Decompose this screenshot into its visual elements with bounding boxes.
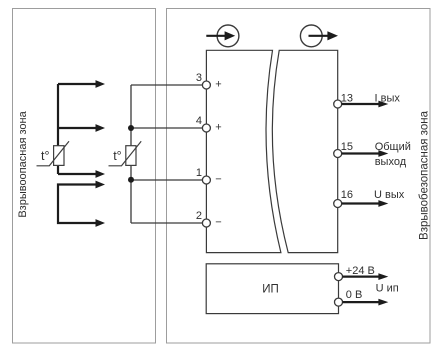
terminal 13: [334, 100, 342, 108]
svg-text:t°: t°: [41, 149, 49, 163]
wire: BK2 to terminal 4: [131, 127, 203, 129]
svg-text:выход: выход: [375, 156, 407, 168]
current loop symbol (input) circle: [217, 25, 239, 47]
wire arrow: BK1 lead to terminal 1: [58, 170, 105, 178]
wire arrow: bracket lower lead: [96, 219, 106, 227]
terminal 4: [202, 124, 210, 132]
wire arrow: bracket upper lead: [96, 181, 106, 189]
power supply block ИП: [206, 264, 338, 314]
svg-text:+: +: [215, 79, 221, 91]
svg-text:I вых: I вых: [375, 92, 401, 104]
svg-text:15: 15: [341, 141, 353, 153]
wire: BK2 to terminal 3: [131, 84, 203, 86]
terminal 1: [202, 176, 210, 184]
wire arrow: common output: [342, 150, 389, 157]
current loop symbol (output) circle: [300, 25, 322, 47]
svg-text:Общий: Общий: [375, 141, 411, 153]
terminal +24V: [335, 273, 343, 281]
svg-text:U вых: U вых: [374, 189, 405, 201]
svg-text:U ип: U ип: [376, 283, 399, 295]
safe zone boundary box: [167, 9, 431, 344]
wire arrow: U out: [342, 200, 389, 207]
svg-text:+24 В: +24 В: [346, 265, 375, 277]
wire: BK2 to terminal 1: [131, 179, 203, 181]
wire: BK2 to terminal 2: [131, 222, 203, 224]
svg-text:Взрывобезопасная зона: Взрывобезопасная зона: [419, 110, 431, 240]
transducer output section (right half of block, isolation gap): [272, 50, 337, 252]
svg-text:0 В: 0 В: [346, 289, 363, 301]
wire arrow: BK1 lead to terminal 4: [58, 124, 105, 132]
wire bracket: BK1 second pair of leads: [58, 185, 97, 224]
terminal 15: [334, 150, 342, 158]
svg-text:1: 1: [196, 167, 202, 179]
svg-text:−: −: [215, 216, 221, 228]
RTD sensor BK2 diagonal: [109, 141, 142, 166]
wire: sensor BK2 vertical lead: [130, 85, 132, 223]
transducer input section (left half of block): [206, 50, 281, 252]
svg-text:ИП: ИП: [262, 284, 279, 296]
wire arrow: +24V supply: [343, 273, 389, 280]
terminal 16: [334, 200, 342, 208]
current loop symbol (output) arrow: [309, 31, 339, 40]
RTD sensor BK2 body: [126, 146, 136, 166]
terminal 0V: [335, 298, 343, 306]
wire: sensor BK1 top lead vertical: [57, 84, 59, 174]
svg-text:16: 16: [341, 189, 353, 201]
wire arrow: BK1 lead to terminal 3: [58, 80, 105, 88]
svg-text:Взрывоопасная зона: Взрывоопасная зона: [17, 110, 29, 217]
current loop symbol (input) arrow: [206, 31, 235, 40]
RTD sensor BK1 diagonal: [37, 141, 70, 166]
svg-text:3: 3: [196, 72, 202, 84]
wire arrow: I out: [342, 101, 389, 108]
svg-text:−: −: [215, 173, 221, 185]
svg-text:4: 4: [196, 115, 202, 127]
wire arrow: 0V supply: [343, 299, 389, 306]
svg-text:+: +: [215, 122, 221, 134]
junction dot at terminal 4 branch: [128, 125, 134, 131]
RTD sensor BK1 body: [54, 146, 64, 166]
terminal 3: [202, 81, 210, 89]
svg-text:2: 2: [196, 210, 202, 222]
svg-text:13: 13: [341, 93, 353, 105]
terminal 2: [202, 219, 210, 227]
hazardous zone boundary box: [13, 9, 156, 344]
junction dot at terminal 1 branch: [128, 177, 134, 183]
net label Общий выход: [375, 141, 411, 168]
svg-text:t°: t°: [113, 149, 121, 163]
